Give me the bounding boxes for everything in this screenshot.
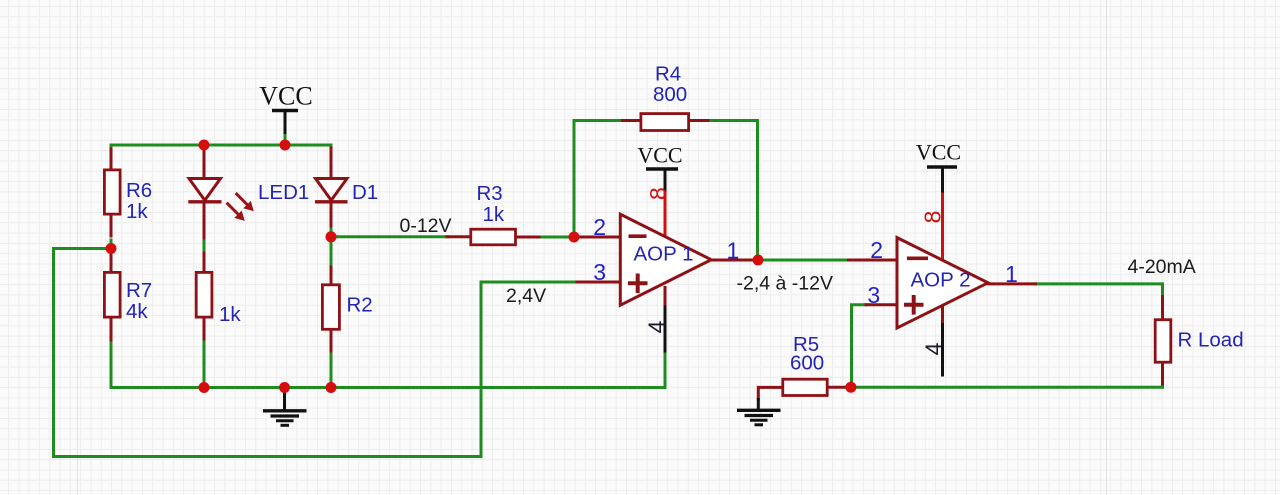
svg-text:4: 4: [644, 320, 670, 333]
svg-text:3: 3: [867, 282, 880, 308]
wire maroon stub LED cathode: [203, 202, 206, 238]
svg-text:-2,4 à -12V: -2,4 à -12V: [737, 273, 833, 295]
wire maroon stub 1k bottom: [203, 319, 206, 340]
svg-text:VCC: VCC: [916, 140, 961, 165]
wire maroon stub LED anode: [203, 148, 206, 178]
wire maroon stub D1 anode: [330, 148, 333, 178]
wire maroon stub 1k top: [203, 253, 206, 271]
node D1/R2/R3: [326, 231, 337, 242]
wire summing junction to AOP1 pin2: [574, 236, 581, 239]
svg-text:AOP 2: AOP 2: [911, 269, 971, 292]
svg-text:4: 4: [921, 342, 947, 355]
node R3/feedback/pin2: [569, 232, 580, 243]
resistor R4: [641, 114, 689, 131]
wire maroon stub AOP2 pin2: [849, 259, 899, 262]
op-amp AOP2: [897, 238, 988, 328]
wire maroon stub R6 top: [110, 149, 113, 169]
svg-text:R2: R2: [347, 294, 373, 317]
svg-text:1: 1: [727, 237, 740, 263]
svg-text:R7: R7: [126, 279, 152, 302]
svg-text:8: 8: [919, 211, 945, 224]
op-amp U2 pin 4 wire: [941, 304, 944, 323]
resistor R3: [471, 229, 516, 245]
svg-text:8: 8: [645, 187, 671, 200]
resistor 1k (LED branch): [196, 272, 212, 317]
svg-text:1k: 1k: [483, 203, 505, 226]
wire AOP1 output to AOP2 pin2: [758, 259, 849, 262]
svg-text:4k: 4k: [126, 300, 148, 323]
wire maroon stub R4 right: [690, 119, 708, 122]
svg-text:800: 800: [653, 83, 687, 106]
resistor R7: [104, 272, 120, 317]
power symbol VCC3 (AOP2): [916, 140, 961, 193]
power symbol VCC2 (AOP1): [637, 142, 682, 191]
svg-text:2,4V: 2,4V: [506, 285, 546, 307]
svg-text:R6: R6: [126, 179, 152, 202]
wire maroon stub AOP1 pin2: [580, 236, 621, 239]
wire 0-12V input node to R3: [331, 235, 448, 238]
node VCC/rail: [280, 140, 291, 151]
svg-text:1k: 1k: [219, 303, 241, 326]
svg-text:VCC: VCC: [637, 142, 682, 167]
LED1 emission arrows: [227, 193, 254, 221]
wire feedback R4 right to AOP1 output junction: [708, 121, 758, 261]
node R5/pin3/R Load: [845, 382, 856, 393]
wire maroon stub R5 right: [829, 386, 848, 389]
node LED/rail: [199, 140, 210, 151]
wire R2 bottom to ground bus: [330, 350, 333, 388]
wire maroon stub D1 cathode: [330, 202, 333, 226]
wire maroon stub R7 top: [110, 252, 113, 271]
wire ground bus left section with AOP1 pin4 riser: [111, 339, 665, 388]
wire R3 to summing junction: [538, 236, 574, 239]
wire maroon stub AOP1 pin3: [577, 281, 621, 284]
svg-text:4-20mA: 4-20mA: [1128, 256, 1196, 278]
diode D1: [315, 179, 348, 202]
svg-text:R Load: R Load: [1178, 329, 1244, 352]
svg-text:3: 3: [593, 259, 606, 285]
svg-text:2: 2: [870, 237, 883, 263]
node ground symbol/bus: [279, 382, 290, 393]
svg-text:1: 1: [1005, 261, 1018, 287]
wire maroon stub R4 left: [623, 119, 641, 122]
svg-text:600: 600: [790, 352, 824, 375]
op-amp U1 pin 4 wire: [664, 286, 667, 306]
power symbol VCC1: [259, 82, 312, 147]
wire 2,4V reference net (R6/R7 junction, left loop, to AOP1 pin3): [54, 249, 579, 457]
resistor R2: [322, 285, 339, 330]
ground (R5): [737, 398, 781, 425]
wire AOP2 output to R Load top: [1035, 284, 1163, 297]
node R2/ground bus: [326, 382, 337, 393]
svg-text:2: 2: [593, 214, 606, 240]
wire through R6/R7 junction: [110, 240, 113, 256]
svg-text:0-12V: 0-12V: [400, 215, 452, 237]
wire maroon stub R2 bottom: [330, 329, 333, 351]
wire maroon stub R6 bottom: [110, 216, 113, 237]
wire D1 cathode node down to R2: [330, 225, 333, 268]
svg-text:LED1: LED1: [258, 181, 309, 204]
svg-text:AOP 1: AOP 1: [634, 243, 694, 266]
wire LED cathode to 1k: [203, 237, 206, 254]
wire maroon stub AOP2 pin3: [866, 303, 898, 306]
wire maroon stub R3 left: [447, 235, 470, 238]
wire maroon stub AOP1 pin1 output: [711, 259, 758, 262]
wire maroon stub R2 top: [330, 267, 333, 283]
op-amp U2 pin 8 supply wire: [941, 193, 944, 262]
resistor R6: [104, 170, 120, 214]
wire VCC top rail: [111, 145, 331, 152]
wire maroon stub R5 left + elbow to ground: [758, 387, 781, 399]
wire green stub below LED rail junction: [203, 145, 206, 151]
wire AOP2 pin3 riser: [852, 305, 868, 388]
op-amp U1 pin 8 supply wire: [664, 192, 667, 239]
resistor R Load: [1155, 320, 1171, 363]
wire maroon stub AOP2 pin1 output: [988, 282, 1036, 285]
node R6/R7: [106, 243, 117, 254]
op-amp AOP1: [620, 214, 711, 305]
node AOP1 out: [753, 255, 764, 266]
node 1k/ground bus: [199, 382, 210, 393]
svg-text:VCC: VCC: [259, 82, 312, 111]
wire maroon stub R Load top: [1161, 297, 1164, 320]
wire maroon stub R7 bottom: [110, 319, 113, 341]
wire maroon stub R Load bottom: [1161, 364, 1164, 384]
svg-text:1k: 1k: [126, 200, 148, 223]
svg-text:R3: R3: [477, 182, 503, 205]
svg-text:D1: D1: [352, 181, 378, 204]
ground (main, left): [263, 390, 307, 425]
wire R5 node to R Load bottom (ground return bus right): [846, 383, 1163, 387]
wire 1k bottom to ground bus: [203, 338, 206, 388]
wire maroon stub R3 right: [517, 236, 539, 239]
LED LED1: [188, 179, 221, 202]
resistor R5: [783, 379, 827, 395]
wire feedback loop left riser and top run to R4: [574, 121, 623, 238]
